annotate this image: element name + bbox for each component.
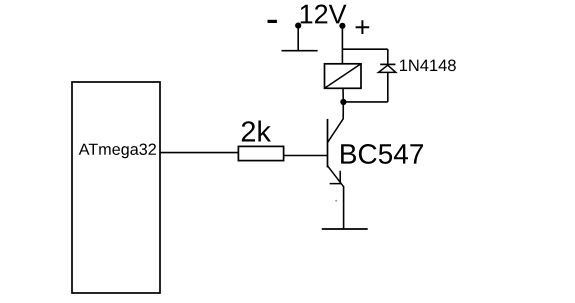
label 12V <box>301 5 347 24</box>
wire diode bottom vertical <box>387 72 389 102</box>
label plus <box>356 20 370 34</box>
wire resistor to base <box>284 155 328 157</box>
transistor Q1 collector diagonal <box>328 119 344 143</box>
transistor Q1 emitter diagonal <box>328 166 344 187</box>
stray speck artifact <box>335 200 337 202</box>
node -12V dot <box>295 23 301 29</box>
emitter arrow head <box>330 171 341 184</box>
wire +12V supply vertical <box>341 26 343 64</box>
transistor Q1 base bar <box>327 119 329 168</box>
resistor R1 body <box>238 146 283 160</box>
ground supply minus <box>282 50 318 52</box>
label 1N4148 <box>400 60 456 72</box>
label BC547 <box>341 144 423 164</box>
wire collector vertical <box>342 102 344 120</box>
relay K1 coil box <box>325 64 362 89</box>
wire emitter vertical <box>343 186 345 229</box>
wire diode top vertical <box>387 49 389 64</box>
diode D1 cathode bar <box>380 63 395 65</box>
wire ATmega32 to resistor <box>160 152 238 154</box>
node junction dot collector/relay/diode <box>340 99 346 105</box>
wire node to diode bottom <box>343 101 387 103</box>
label ATmega32 <box>79 144 156 159</box>
wire -12V to ground <box>297 26 299 51</box>
node +12V dot <box>339 23 345 29</box>
relay K1 coil diagonal <box>325 64 362 89</box>
ground emitter <box>322 228 368 230</box>
label minus <box>268 20 277 23</box>
wire relay bottom pin <box>342 88 344 102</box>
wire top branch to diode <box>342 48 387 50</box>
IC U1 ATmega32 box <box>72 82 160 293</box>
diode D1 triangle <box>378 65 395 72</box>
value label 2k <box>242 121 271 142</box>
